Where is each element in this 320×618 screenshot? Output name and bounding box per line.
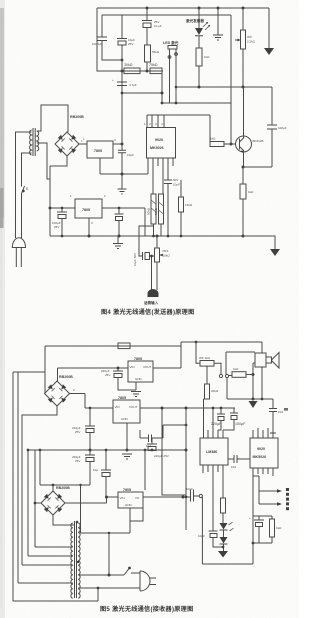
LM386 top pin wires (208, 408, 213, 438)
resistor 20k vertical (206, 366, 208, 384)
svg-text:话筒输入: 话筒输入 (144, 300, 159, 305)
svg-text:MF1: MF1 (163, 249, 169, 253)
wire left drop (97, 8, 163, 71)
LM386 bottom pins (208, 465, 218, 472)
wire speaker return (261, 367, 263, 399)
svg-text:75kΩ: 75kΩ (149, 63, 158, 67)
light beam arrow 1 (259, 490, 278, 492)
regulator R3 7905 (118, 492, 143, 508)
switch on plug wire (124, 569, 140, 576)
wire loop rectangle left (162, 408, 186, 495)
svg-text:VOUT: VOUT (143, 365, 152, 369)
microphone MIC (148, 289, 159, 297)
wire secondary bottom (37, 143, 50, 179)
power rail mid (28, 449, 186, 451)
diode pair (222, 513, 224, 523)
wire primary top (16, 132, 32, 238)
wire circle lead down and bus y399 (227, 378, 273, 399)
wire right column x186 (185, 408, 187, 530)
regulator R1 7805 (128, 361, 153, 382)
wire R2 gnd (126, 423, 128, 450)
light beam arrow 2 (259, 503, 278, 505)
wire R3 out with capacitor (143, 490, 199, 502)
svg-text:激光发射器: 激光发射器 (186, 18, 204, 23)
capacitor C 10uF below (202, 465, 204, 473)
wire from rail2 to base node (230, 15, 232, 144)
wire pins bus y115 (147, 114, 210, 116)
wire gnd bus under regulator (100, 158, 148, 174)
svg-text:GND: GND (125, 503, 133, 507)
wire regulator gnd pin (88, 218, 90, 236)
connector circles (219, 374, 222, 377)
wire bridge bottom to column (50, 156, 67, 236)
svg-text:10μF: 10μF (173, 183, 180, 187)
wire decoder down (253, 476, 272, 516)
svg-text:50V: 50V (173, 178, 178, 182)
node j2 (121, 59, 124, 62)
svg-text:VIN: VIN (115, 405, 120, 409)
svg-text:VOUT: VOUT (129, 405, 138, 409)
resistor R 30k (124, 68, 140, 74)
stray mark (284, 408, 288, 411)
ground G8 (131, 392, 141, 397)
wire gnd loop lower (81, 521, 131, 575)
capacitor C 4.7uF (117, 82, 127, 86)
svg-text:10μF 50V: 10μF 50V (133, 253, 137, 266)
wire bridge2 left (27, 450, 29, 556)
wire top rail (45, 345, 181, 347)
wire regulator out lower (102, 207, 145, 209)
svg-text:104: 104 (278, 410, 283, 414)
svg-text:7805: 7805 (94, 149, 102, 153)
svg-text:220μF: 220μF (211, 422, 222, 426)
pin tick (270, 432, 276, 434)
wire mic bus (139, 226, 154, 256)
svg-text:25V: 25V (75, 459, 80, 463)
resistor vertical A (151, 194, 156, 224)
svg-text:RB200B: RB200B (56, 486, 70, 490)
svg-text:2.2kΩ: 2.2kΩ (247, 40, 256, 44)
svg-text:10μF: 10μF (186, 487, 193, 491)
svg-text:1kΩ: 1kΩ (204, 55, 210, 59)
wire AC feed row (13, 371, 45, 373)
svg-text:WF 1kΩ: WF 1kΩ (199, 356, 211, 360)
ground G3 (270, 249, 280, 256)
op IC U1 9020 (147, 128, 176, 159)
decoder top pins (253, 428, 268, 438)
capacitor C5 10uF (118, 144, 126, 189)
capacitor C 100uF right (267, 87, 277, 167)
capacitor 220uF 25V (117, 367, 120, 370)
capacitor C7 100uF 25V (57, 208, 67, 212)
svg-text:7805: 7805 (82, 208, 90, 212)
wire R2 out (140, 407, 235, 409)
wire y93 (122, 92, 162, 94)
scan edge shading left (0, 0, 5, 618)
wire rail right segment (181, 342, 262, 368)
bridge rectifier D1 RB200B (55, 132, 79, 156)
wire x40 drop (39, 450, 41, 485)
wire regulator out (113, 71, 122, 144)
svg-text:100μF: 100μF (235, 422, 246, 426)
svg-text:9020: 9020 (155, 138, 163, 142)
ground G10 (218, 551, 228, 558)
svg-text:图5 激光无线通信(接收器)原理图: 图5 激光无线通信(接收器)原理图 (100, 605, 193, 613)
svg-text:+: + (249, 516, 251, 520)
regulator U3 7805 (50, 207, 75, 209)
wire bottom join (253, 516, 272, 564)
resistor WF 1k (195, 341, 198, 344)
capacitor C6 10uF (118, 207, 121, 210)
ground G7 (249, 401, 258, 408)
wire left column 2 (17, 372, 19, 583)
capacitor C 50V 10uF (164, 180, 172, 236)
resistor H2 1k (229, 375, 232, 377)
amplifier U4 LM386 (200, 438, 228, 465)
svg-text:10μF: 10μF (127, 153, 134, 157)
svg-text:1kΩ: 1kΩ (210, 137, 216, 141)
wire bridge2 out (70, 394, 86, 409)
transformer T1 (33, 128, 35, 156)
resistor R 75k (150, 68, 162, 74)
wire primary bottom with switch K (22, 153, 32, 238)
svg-text:10μ: 10μ (93, 468, 98, 472)
ground rail bottom (50, 236, 275, 249)
svg-text:RB200B: RB200B (59, 375, 73, 379)
ground G2 (268, 8, 270, 48)
svg-text:MK5026: MK5026 (253, 455, 267, 459)
wire speaker lower lead (253, 362, 255, 364)
wire to light arrows (253, 476, 259, 504)
resistor vertical B (159, 194, 164, 224)
svg-text:LED 激光: LED 激光 (163, 40, 179, 45)
wire R3 gnd loop (130, 508, 143, 521)
svg-text:20kΩ: 20kΩ (211, 389, 219, 393)
capacitor C2 10uF 25V (117, 15, 127, 39)
dashed lens column (286, 488, 289, 491)
wire module lead 1 (169, 49, 171, 103)
svg-text:VIN: VIN (130, 365, 135, 369)
resistor H1 on rail (118, 343, 130, 349)
wire y103 (162, 102, 231, 104)
wire emitter bus (243, 166, 272, 168)
svg-text:104: 104 (231, 465, 236, 469)
laser diode LED (198, 7, 201, 10)
svg-text:50kΩ: 50kΩ (147, 207, 151, 215)
capacitor bank C x90 lower (85, 450, 95, 455)
AC plug P1 (12, 238, 25, 248)
resistor 1k right (271, 516, 273, 519)
svg-text:25V: 25V (75, 430, 80, 434)
svg-text:10μF: 10μF (198, 534, 205, 538)
decoder bottom pins (253, 468, 273, 476)
svg-text:VIN: VIN (120, 496, 125, 500)
resistor R emitter 1k (242, 167, 244, 184)
resistor R laser 1k vertical (196, 48, 202, 66)
wire mic leads (152, 256, 158, 290)
capacitor 104 between ICs (228, 455, 250, 463)
capacitor C3 25V 10uF (146, 7, 149, 10)
capacitor 220uF near rail (147, 438, 157, 444)
svg-text:VO: VO (135, 496, 140, 500)
svg-text:1kΩ: 1kΩ (233, 367, 239, 371)
wire circle2 to speaker (226, 352, 255, 374)
capacitor on pin with 104 label (269, 399, 277, 438)
svg-text:+: + (138, 247, 140, 251)
svg-text:7805: 7805 (118, 396, 126, 400)
wire bridge3 left (35, 502, 41, 504)
AC plug P2 (140, 571, 150, 591)
wire R1 gnd (135, 382, 137, 390)
wire H y485 (40, 484, 90, 486)
svg-text:100μF: 100μF (278, 126, 287, 130)
svg-text:MK5026: MK5026 (150, 146, 164, 150)
svg-text:BD112B: BD112B (253, 139, 264, 143)
svg-text:220μF 25V: 220μF 25V (154, 454, 169, 458)
IC pin wires top (147, 115, 164, 128)
wire top rail VCC (97, 7, 269, 9)
wire bridge3 bottom (53, 515, 74, 525)
svg-text:7805: 7805 (134, 357, 142, 361)
svg-text:GND: GND (135, 377, 143, 381)
capacitor CF 100uF (230, 408, 238, 413)
wire second rail (102, 14, 231, 16)
svg-text:10 μF: 10 μF (154, 24, 162, 28)
capacitor 104 (140, 425, 186, 442)
wire mid bus y87 (161, 71, 163, 103)
svg-text:+: + (112, 78, 114, 82)
svg-text:1kΩ: 1kΩ (276, 526, 282, 530)
resistor R base 1k (210, 142, 224, 147)
potentiometer MF1 10k (156, 236, 158, 248)
node j3 (121, 70, 124, 73)
ground G9 (122, 454, 132, 459)
wire x145 drop (144, 450, 146, 490)
wire secondary top loop (37, 105, 68, 132)
svg-text:RB200B: RB200B (70, 115, 84, 119)
capacitor 10uF on rail (105, 449, 108, 452)
svg-text:LM386: LM386 (206, 450, 217, 454)
resistor R 56k vertical (145, 45, 151, 62)
potentiometer W0 2.2k (242, 7, 245, 10)
svg-text:9020: 9020 (257, 447, 265, 451)
wire speaker top lead (261, 342, 263, 353)
bridge rectifier D2 RB200B (45, 381, 70, 406)
wire bridge3 out (65, 497, 118, 503)
wire module lead 2 (175, 49, 177, 103)
svg-text:25V: 25V (128, 42, 133, 46)
svg-text:30kΩ: 30kΩ (124, 63, 133, 67)
decoder U5 9020 (250, 438, 278, 468)
svg-text:1kΩ: 1kΩ (248, 190, 254, 194)
wire bridge2 bottom (22, 406, 57, 565)
wire left column 1 (12, 372, 14, 601)
transformer T2 (75, 521, 77, 598)
resistor below LM386 (222, 465, 224, 498)
svg-text:25V: 25V (105, 373, 110, 377)
svg-text:GND: GND (121, 417, 129, 421)
IC pin wires bottom (153, 158, 173, 194)
wire drop to base resistor (209, 115, 211, 142)
ground G1 (217, 7, 220, 10)
wire left column x35 (34, 450, 36, 547)
svg-text:10kΩ: 10kΩ (163, 254, 171, 258)
wire to ground (252, 363, 254, 399)
capacitor bank C x90 upper (85, 408, 95, 426)
transformer right taps (78, 575, 140, 601)
svg-text:1000μF: 1000μF (92, 42, 102, 46)
svg-text:7905: 7905 (123, 488, 131, 492)
transistor Q1 BD112B (236, 136, 252, 152)
wire R2 in (85, 407, 113, 409)
svg-text:W0: W0 (247, 35, 252, 39)
wire R1 out (153, 367, 181, 369)
wire drop x145 (144, 208, 146, 236)
node j1 (146, 70, 149, 73)
ground G4 (118, 189, 127, 194)
capacitor CG 220uF (217, 408, 225, 414)
capacitor CE 10uF 50V (142, 252, 144, 260)
regulator U2 7805 (87, 141, 113, 158)
regulator R2 7805 (113, 400, 140, 423)
capacitor C1 1000uF (97, 15, 122, 60)
capacitor CH5 (254, 516, 264, 520)
wire bridge out (79, 143, 87, 145)
svg-text:13kΩ: 13kΩ (185, 203, 193, 207)
svg-text:4.7μF: 4.7μF (129, 83, 137, 87)
resistor R 13k (180, 180, 182, 197)
svg-text:56kΩ: 56kΩ (152, 50, 160, 54)
svg-text:50kΩ: 50kΩ (154, 207, 158, 215)
ground G5 below rail (113, 236, 123, 249)
nested loop wires (13, 547, 98, 601)
wire rail corner to regulator input (44, 346, 46, 394)
speaker SP (255, 353, 266, 367)
svg-text:图4 激光无线通信(发送器)原理图: 图4 激光无线通信(发送器)原理图 (101, 308, 194, 316)
svg-text:25V: 25V (54, 225, 59, 229)
bridge rectifier D3 RB200B (52, 485, 54, 491)
